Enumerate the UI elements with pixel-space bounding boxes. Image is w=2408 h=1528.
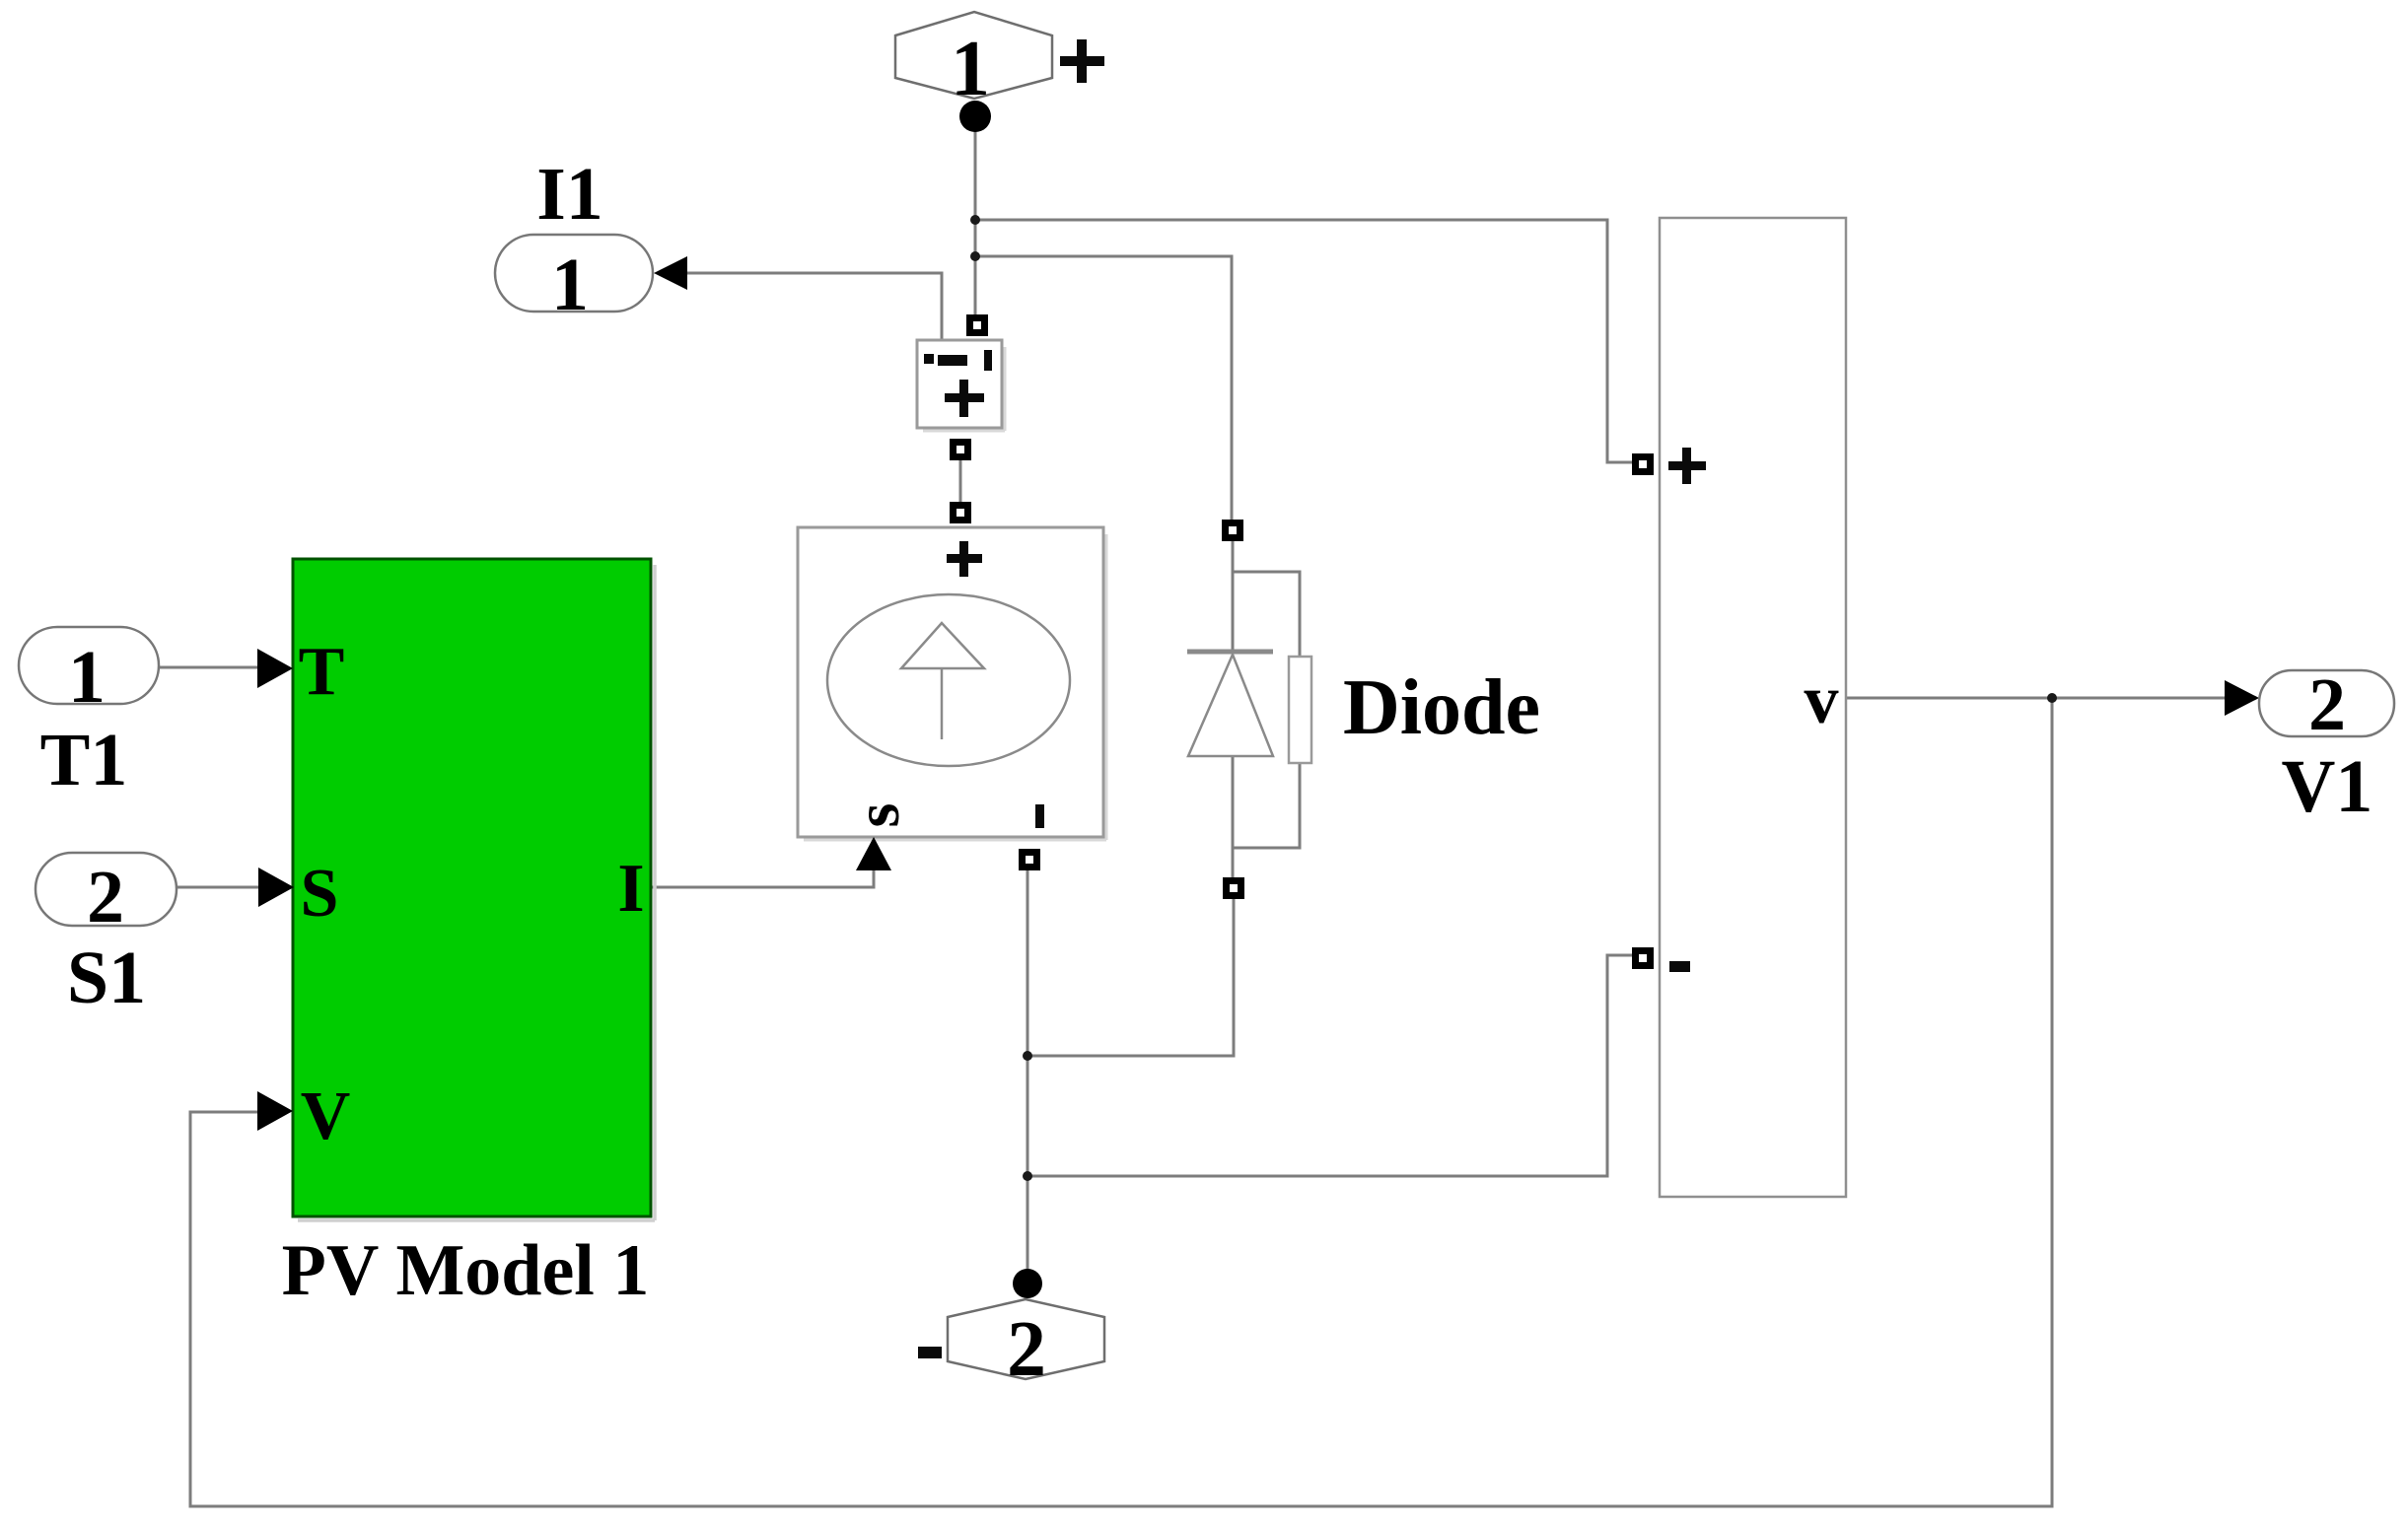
svg-text:2: 2 (87, 856, 124, 938)
svg-text:V: V (301, 1078, 351, 1154)
svg-text:S1: S1 (67, 937, 146, 1019)
svg-text:1: 1 (68, 636, 106, 719)
svg-text:1: 1 (951, 26, 990, 112)
svg-text:s: s (842, 803, 912, 828)
svg-text:S: S (301, 856, 339, 932)
svg-text:T1: T1 (40, 719, 128, 801)
svg-text:1: 1 (551, 243, 589, 326)
svg-text:V1: V1 (2282, 745, 2373, 828)
svg-text:Diode: Diode (1343, 664, 1540, 751)
svg-text:2: 2 (1007, 1306, 1046, 1393)
svg-text:PV Model 1: PV Model 1 (282, 1230, 650, 1311)
svg-text:v: v (1805, 662, 1839, 738)
svg-text:2: 2 (2308, 663, 2346, 746)
svg-text:I: I (617, 851, 644, 927)
svg-text:I1: I1 (536, 153, 603, 236)
svg-text:T: T (299, 634, 345, 710)
